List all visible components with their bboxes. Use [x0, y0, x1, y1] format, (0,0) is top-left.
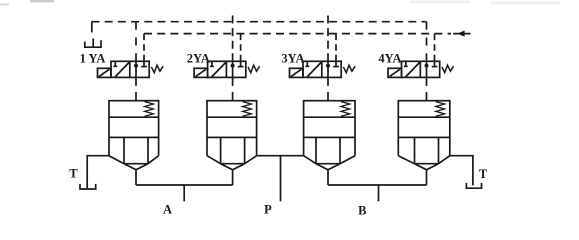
main valve U4 inner piston right wall — [438, 137, 440, 163]
return spring of V3 — [343, 65, 355, 72]
solenoid actuator diagonal of V4 — [390, 69, 401, 76]
svg-text:A: A — [163, 203, 172, 217]
straight flow path (right square) of V1 — [135, 61, 137, 77]
solenoid pilot valve V2 (2YA) main box — [208, 61, 246, 77]
crossed flow path (left square) of V2 — [212, 62, 227, 77]
connector symbol (plugged pilot port, top-left) — [85, 40, 101, 47]
main valve U3 sleeve right wall — [354, 137, 356, 155]
main valve U3 inner piston left wall — [315, 137, 317, 163]
main valve U4 seat slant left — [398, 156, 414, 164]
valve V3 position divider — [321, 61, 323, 77]
poppet cone of main valve U4 — [415, 164, 439, 170]
solenoid actuator diagonal of V3 — [291, 69, 302, 76]
main valve U1 sleeve right wall — [158, 137, 160, 155]
solenoid coil of V2 — [194, 68, 208, 77]
wire: dashed pilot line valve 3 to main valve 3 body — [327, 77, 329, 100]
main valve U1 seat slant left — [109, 156, 124, 164]
valve V4 position divider — [419, 61, 421, 77]
main valve U1 seat slant right — [148, 156, 159, 164]
main valve U4 inner piston left wall — [414, 137, 416, 163]
solenoid coil of V4 — [388, 68, 402, 77]
main valve U2 sleeve left wall — [206, 137, 208, 155]
wire: dashed drop from lower bus to valve 4 blocked port — [434, 34, 436, 62]
solenoid actuator diagonal of V2 — [196, 69, 207, 76]
main valve U1 sleeve left wall — [108, 137, 110, 155]
solenoid coil of V1 — [98, 68, 112, 77]
spring of main valve U2 — [243, 102, 252, 117]
wire: port P stub — [280, 156, 282, 202]
main valve U4 sleeve left wall — [397, 137, 399, 155]
svg-text:T: T — [479, 167, 488, 181]
straight flow path (right square) of V3 — [327, 61, 329, 77]
wire: B collector bus (U3 apex to U4 apex) — [328, 184, 427, 186]
straight flow path (right square) of V2 — [232, 61, 234, 77]
svg-text:2YA: 2YA — [187, 51, 210, 65]
main valve U3 sleeve left wall — [303, 137, 305, 155]
svg-text:3YA: 3YA — [281, 51, 304, 65]
spring of main valve U4 — [436, 102, 445, 117]
wire: dashed drop crossing upper bus to valve 2 centre port — [232, 16, 234, 62]
junction dot on V2 flow path — [231, 64, 235, 68]
wire: dashed drop from upper bus end corner to valve 4 centre port — [426, 22, 428, 62]
wire: dashed pilot line valve 2 to main valve 2 body — [232, 77, 234, 100]
wire: dashed drop from lower bus to valve 2 blocked port — [240, 34, 242, 62]
spring of main valve U3 — [341, 102, 350, 117]
tank symbol left — [80, 184, 96, 189]
tank symbol right — [466, 183, 481, 188]
wire: outlet line from poppet apex of U1 — [135, 170, 137, 185]
main valve U2 seat slant left — [207, 156, 221, 164]
main valve U3 seat slant right — [340, 156, 355, 164]
main valve U1 internal divider — [109, 116, 159, 118]
main valve U3 internal divider — [304, 116, 355, 118]
main valve U4 sleeve right wall — [449, 137, 451, 155]
spring of main valve U1 — [145, 102, 154, 117]
wire: upper dashed pilot bus — [92, 21, 427, 23]
crossed flow path (left square) of V1 — [115, 62, 130, 77]
solenoid pilot valve V4 (4YA) main box — [402, 61, 440, 77]
wire: dashed drop from lower bus to valve 3 blocked port — [335, 34, 337, 62]
blocked port (left square) of V4 — [405, 61, 407, 66]
wire: outlet line from poppet apex of U2 — [232, 170, 234, 185]
svg-text:4YA: 4YA — [378, 51, 401, 65]
junction dot on V4 flow path — [425, 64, 429, 68]
wire: outlet line from poppet apex of U4 — [426, 170, 428, 185]
main valve U4 seat slant right — [439, 156, 450, 164]
return spring of V2 — [248, 65, 260, 72]
valve V2 position divider — [225, 61, 227, 77]
wire: A collector bus (U1 apex to U2 apex) — [136, 184, 233, 186]
arrow: flow direction into lower bus — [453, 33, 470, 35]
main valve U2 inner piston left wall — [220, 137, 222, 163]
main valve body U2 outer block — [207, 101, 257, 138]
crossed flow path (left square) of V4 — [406, 62, 421, 77]
junction dot on V3 flow path — [326, 64, 330, 68]
main valve U2 inner piston right wall — [244, 137, 246, 163]
wire: lower dashed pilot bus — [144, 33, 451, 35]
svg-text:P: P — [264, 203, 272, 217]
poppet cone of main valve U1 — [124, 164, 148, 170]
main valve body U3 outer block — [304, 101, 355, 138]
blocked port (left square) of V1 — [114, 61, 116, 66]
blocked port (left square) of V2 — [211, 61, 213, 66]
wire: upper bus left corner drop to connector — [91, 22, 93, 33]
wire: dashed drop from upper bus to valve 1 centre port — [135, 22, 137, 62]
main valve body U1 outer block — [109, 101, 159, 138]
main valve U2 sleeve right wall — [256, 137, 258, 155]
solenoid pilot valve V3 (3YA) main box — [303, 61, 341, 77]
main valve U4 internal divider — [398, 116, 450, 118]
blocked port (left square) of V3 — [306, 61, 308, 66]
blocked port (right square) of V4 — [434, 61, 436, 66]
straight flow path (right square) of V4 — [426, 61, 428, 77]
main valve U2 internal divider — [207, 116, 257, 118]
solenoid pilot valve V1 (1YA) main box — [111, 61, 149, 77]
blocked port (right square) of V1 — [143, 61, 145, 66]
svg-text:T: T — [69, 167, 78, 181]
poppet cone of main valve U3 — [316, 164, 340, 170]
wire: dashed drop crossing upper bus to valve 3 centre port — [327, 16, 329, 62]
return spring of V1 — [151, 65, 163, 72]
wire: tank branch right (body U4 side port to tank) — [450, 156, 473, 186]
wire: dashed pilot line valve 4 to main valve 4 body — [426, 77, 428, 100]
solenoid coil of V3 — [290, 68, 304, 77]
main valve U1 inner piston right wall — [147, 137, 149, 163]
wire: tank branch left (body U1 side port to tank) — [87, 156, 109, 189]
return spring of V4 — [442, 65, 454, 72]
main valve body U4 outer block — [398, 101, 450, 138]
wire: outlet line from poppet apex of U3 — [327, 170, 329, 185]
wire: P supply line between U2 and U3 side ports — [257, 155, 304, 157]
crossed flow path (left square) of V3 — [307, 62, 322, 77]
main valve U3 seat slant left — [304, 156, 316, 164]
valve V1 position divider — [129, 61, 131, 77]
main valve U1 inner piston left wall — [123, 137, 125, 163]
scan artifact marks (faint) — [30, 0, 54, 2]
main valve U2 seat slant right — [245, 156, 257, 164]
main valve U3 inner piston right wall — [339, 137, 341, 163]
wire: port B stub — [378, 185, 380, 201]
solenoid actuator diagonal of V1 — [99, 69, 110, 76]
svg-text:B: B — [358, 204, 366, 218]
poppet cone of main valve U2 — [221, 164, 245, 170]
wire: dashed pilot line valve 1 to main valve 1 body — [135, 77, 137, 100]
blocked port (right square) of V3 — [335, 61, 337, 66]
wire: port A stub — [183, 185, 185, 201]
junction dot on V1 flow path — [134, 64, 138, 68]
blocked port (right square) of V2 — [240, 61, 242, 66]
svg-text:1 YA: 1 YA — [80, 51, 106, 65]
wire: dashed drop from lower bus to valve 1 blocked port — [143, 34, 145, 62]
